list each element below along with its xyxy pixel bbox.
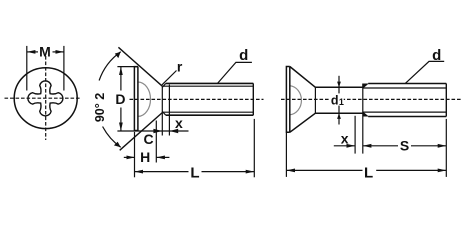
dimension M line with arrows (27, 51, 38, 53)
svg-text:L: L (190, 164, 199, 181)
L left extension right view (285, 133, 287, 177)
cone edge bottom with angle extension (120, 113, 163, 151)
recess hidden arc in head (138, 82, 151, 116)
svg-text:S: S (400, 138, 409, 154)
cone edge bottom right view (290, 113, 316, 132)
head face double line right view (286, 67, 289, 133)
d1 dimension vertical line (338, 76, 340, 125)
angle arc arrowhead upper (115, 52, 121, 58)
angle arc arrowhead lower (114, 142, 121, 147)
thread outer line top (166, 82, 254, 84)
r leader (162, 71, 177, 85)
svg-text:H: H (140, 149, 150, 165)
svg-text:L: L (364, 164, 373, 181)
node centerline middle (130, 98, 264, 100)
d1 upper arrowhead (337, 82, 341, 88)
thread start chamfer bottom (162, 112, 166, 116)
C and x chain dimension line (117, 130, 188, 132)
L left extension line (134, 132, 136, 177)
svg-text:d: d (432, 47, 441, 64)
cone edge top with angle extension (118, 47, 162, 86)
shaft end vertical (252, 83, 254, 115)
svg-text:d: d (239, 47, 248, 64)
node centerline-horizontal (5, 97, 82, 99)
head outline circle (14, 68, 77, 129)
thread outer bottom right (368, 116, 446, 118)
S dimension line (363, 145, 398, 147)
svg-text:1: 1 (339, 97, 344, 107)
x right extension right view (thread start extended) (362, 117, 364, 154)
shank top line (315, 86, 362, 88)
thread end vertical right (445, 84, 447, 117)
x left extension (cone end extended) (161, 113, 163, 136)
d leader middle (217, 62, 252, 83)
D dimension vertical with arrows (120, 67, 122, 91)
cone base vertical (314, 87, 316, 113)
thread outer top right (368, 83, 446, 85)
D top extension line (117, 66, 137, 68)
svg-text:x: x (175, 115, 183, 131)
L right extension line (253, 119, 255, 177)
svg-text:90° 2: 90° 2 (93, 93, 107, 122)
C right arrow / x left arrow (153, 129, 162, 133)
thread minor line top (162, 85, 253, 87)
node centerline-vertical (45, 56, 47, 140)
H right extension line (155, 121, 157, 163)
thread chamfer bottom right (363, 112, 369, 117)
x right arrow (170, 129, 179, 133)
thread minor top right (363, 87, 447, 89)
svg-text:d: d (331, 94, 339, 108)
head face double line (134, 67, 138, 131)
angle dimension arc lower (103, 127, 121, 148)
svg-text:C: C (144, 131, 154, 147)
x dimension right view arrow (334, 145, 355, 147)
S right extension line (445, 119, 447, 177)
phillips recess cross (28, 81, 63, 116)
svg-text:M: M (39, 44, 51, 60)
label d1 (330, 93, 343, 105)
H dimension arrows (124, 156, 135, 158)
svg-text:r: r (177, 59, 183, 75)
dimension M extension line left (26, 46, 28, 91)
thread chamfer top right (363, 84, 369, 89)
svg-text:D: D (115, 91, 125, 107)
thread minor line bottom (162, 111, 253, 113)
d leader right view (405, 61, 444, 83)
node centerline right (281, 98, 462, 100)
x left extension right view (354, 116, 356, 154)
thread start vertical right view (362, 84, 364, 117)
cone edge top right view (290, 67, 316, 88)
recess arc in head (290, 86, 302, 115)
L dimension right view (286, 169, 362, 171)
dimension M extension line right (63, 46, 65, 91)
L dimension line (135, 171, 189, 173)
shank bottom line (315, 112, 362, 114)
thread start chamfer top (162, 83, 166, 87)
full thread start vertical (168, 85, 170, 136)
d1 lower arrowhead (337, 113, 341, 119)
angle dimension arc upper (99, 52, 121, 81)
svg-text:x: x (341, 130, 349, 146)
thread outer line bottom (166, 114, 254, 116)
thread minor bottom right (363, 111, 447, 113)
cone end vertical (161, 86, 163, 112)
